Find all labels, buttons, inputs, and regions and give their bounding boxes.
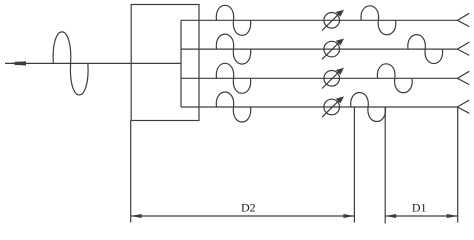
svg-text:D1: D1 — [412, 201, 427, 215]
svg-text:D2: D2 — [241, 201, 256, 215]
